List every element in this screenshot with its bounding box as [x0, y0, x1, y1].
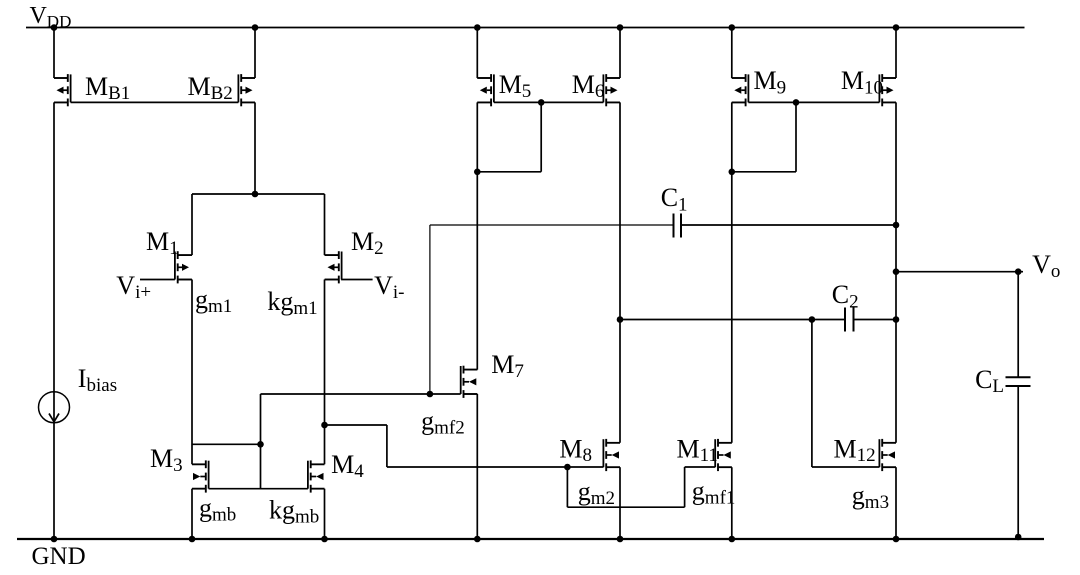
svg-text:M: M [499, 70, 522, 99]
transistor MB1 [54, 74, 71, 106]
svg-text:g: g [578, 477, 591, 506]
label M10 [841, 66, 883, 99]
svg-text:kg: kg [269, 496, 295, 525]
wire M8 source to GND [606, 467, 620, 539]
node CL-GND junction [1015, 534, 1022, 541]
svg-text:DD: DD [47, 12, 72, 31]
label kgm1 [267, 287, 317, 319]
label M1 [146, 227, 179, 259]
node MB1-GND junction [51, 536, 58, 543]
Ibias arrowhead [49, 414, 59, 422]
wire tail rail [192, 193, 325, 195]
svg-text:i-: i- [393, 282, 405, 303]
wire M12 gate branch [812, 320, 880, 468]
label C2 [832, 280, 859, 313]
transistor M5 [477, 74, 494, 106]
svg-text:C: C [975, 365, 992, 394]
power rail VDD [26, 27, 1025, 29]
wire M2 drain down [325, 280, 339, 465]
wire M9-M10 gate line [748, 101, 879, 103]
wire C2 right lead [854, 319, 897, 321]
svg-text:3: 3 [173, 455, 183, 476]
svg-text:10: 10 [864, 78, 883, 99]
wire M7 gate line [261, 393, 461, 395]
svg-text:g: g [195, 285, 208, 314]
label Vo [1032, 250, 1060, 282]
wire M5 diode tie [477, 102, 541, 171]
node M7 gate junction [427, 391, 434, 398]
label M7 [491, 350, 524, 382]
label MB2 [188, 72, 233, 104]
node C2-M12gate junction [809, 316, 816, 323]
svg-text:7: 7 [514, 361, 524, 382]
wire M3 source to GND [192, 489, 206, 539]
svg-text:M: M [188, 72, 211, 101]
svg-text:2: 2 [374, 238, 384, 259]
label M5 [499, 70, 532, 102]
svg-text:M: M [85, 72, 108, 101]
capacitor C1 [674, 214, 682, 238]
node M5-M6 gate junction [538, 99, 545, 106]
wire C1 gate drop [429, 225, 431, 394]
transistor MB2 [238, 74, 255, 106]
transistor M8 [603, 439, 620, 471]
GND label [32, 543, 86, 570]
svg-text:V: V [30, 3, 48, 29]
svg-text:C: C [832, 280, 849, 309]
wire VDD to M5 source [477, 28, 491, 79]
svg-text:mb: mb [212, 505, 236, 526]
svg-text:6: 6 [595, 81, 605, 102]
node VDD-MB1 junction [51, 24, 58, 31]
svg-text:m1: m1 [293, 298, 317, 319]
label gm3 [852, 481, 889, 513]
label M2 [351, 227, 384, 259]
transistor M10 [879, 74, 896, 106]
current source Ibias [39, 392, 70, 423]
wire M12 drain stub [882, 442, 896, 444]
wire M9 drain down to M11 [732, 102, 746, 442]
svg-text:V: V [1032, 250, 1051, 279]
svg-text:12: 12 [857, 445, 876, 466]
svg-text:M: M [351, 227, 374, 256]
wire M1 source [178, 194, 192, 255]
wire M3-M4 gate line [209, 488, 308, 490]
wire M8 drain stub [606, 442, 620, 444]
svg-text:B2: B2 [211, 83, 233, 104]
wire VDD to MB1 source [54, 28, 68, 79]
wire M1 drain down [178, 280, 192, 465]
svg-text:kg: kg [267, 287, 293, 316]
transistor M9 [732, 74, 749, 106]
label gmb [199, 494, 236, 526]
svg-text:m2: m2 [591, 488, 615, 509]
label M9 [754, 66, 787, 99]
svg-text:B1: B1 [108, 83, 130, 104]
node M11-GND junction [729, 536, 736, 543]
svg-text:11: 11 [700, 445, 718, 466]
wire M11 drain stub [718, 442, 732, 444]
node Vo-M10 junction [893, 268, 900, 275]
svg-text:V: V [374, 271, 393, 300]
svg-text:mf2: mf2 [434, 418, 465, 439]
transistor M3 [192, 460, 209, 492]
svg-text:9: 9 [777, 78, 787, 99]
svg-text:g: g [421, 407, 434, 436]
node M5 drain tie junction [474, 169, 481, 176]
label M6 [572, 70, 605, 102]
svg-text:M: M [146, 227, 169, 256]
svg-text:o: o [1051, 261, 1061, 282]
wire C1 left lead [430, 224, 674, 226]
label Vi- [374, 271, 404, 303]
svg-text:4: 4 [354, 461, 364, 482]
label gmf1 [692, 477, 736, 509]
svg-text:bias: bias [87, 375, 118, 396]
node C1-output junction [893, 222, 900, 229]
wire M6 source to VDD [606, 28, 620, 79]
wire MB1-MB2 gate line [71, 101, 239, 103]
transistor M6 [603, 74, 620, 106]
wire M9 diode tie [732, 102, 796, 171]
label gm1 [195, 285, 232, 317]
svg-text:I: I [78, 364, 87, 393]
label CL [975, 365, 1004, 397]
wire C1 right lead [681, 224, 896, 226]
svg-text:m1: m1 [208, 296, 232, 317]
svg-text:M: M [491, 350, 514, 379]
node VDD-M10 junction [893, 24, 900, 31]
wire M4 source to GND [311, 489, 325, 539]
wire Vi+ to M1 gate [140, 279, 175, 281]
wire M3 drain-gate tie [192, 443, 261, 445]
node VDD-MB2 junction [252, 24, 259, 31]
node M9-M10 gate junction [793, 99, 800, 106]
node M9 drain tie junction [729, 169, 736, 176]
transistor M12 [879, 439, 896, 471]
node M4-GND junction [321, 536, 328, 543]
wire M10 drain down to M12 [882, 102, 896, 442]
wire M7 source to GND [464, 394, 478, 539]
wire M5-M6 gate line [494, 101, 604, 103]
wire M7 drain stub [464, 369, 478, 371]
wire MB1 drain down to GND [54, 102, 68, 539]
ground rail GND [17, 538, 1044, 540]
label C1 [661, 183, 688, 216]
wire MB2 source to VDD [241, 28, 255, 79]
wire M4 drain stub [311, 463, 325, 465]
node VDD-M5 junction [474, 24, 481, 31]
label MB1 [85, 72, 130, 104]
capacitor C2 [845, 308, 854, 332]
svg-text:M: M [150, 444, 173, 473]
node Vo-CL junction [1015, 268, 1022, 275]
label M3 [150, 444, 183, 476]
wire M11 source to GND [718, 467, 732, 539]
VDD label [30, 3, 72, 31]
node mirror tie junction [257, 441, 264, 448]
svg-text:M: M [331, 450, 354, 479]
wire M10 source to VDD [882, 28, 896, 79]
node C2-M6 junction [617, 316, 624, 323]
svg-text:5: 5 [522, 81, 532, 102]
svg-text:V: V [116, 271, 135, 300]
capacitor CL [1006, 377, 1031, 386]
label M11 [677, 435, 718, 467]
node C2-output junction [893, 316, 900, 323]
wire Vo to CL [1017, 272, 1019, 378]
wire C2 left lead [620, 319, 845, 321]
wire M5 drain down to M7 [477, 102, 491, 369]
wire mirror tie vertical [260, 394, 262, 489]
svg-text:m3: m3 [865, 492, 889, 513]
node M12-GND junction [893, 536, 900, 543]
label Vi+ [116, 271, 151, 303]
svg-text:M: M [841, 66, 864, 95]
wire M6 drain down to M8 [606, 102, 620, 442]
svg-text:2: 2 [849, 292, 859, 313]
transistor M11 [715, 439, 732, 471]
svg-text:g: g [692, 477, 705, 506]
svg-text:M: M [677, 435, 700, 464]
transistor M2 [325, 251, 342, 283]
svg-text:L: L [992, 376, 1004, 397]
label Ibias [78, 364, 117, 396]
svg-text:M: M [559, 435, 582, 464]
label gm2 [578, 477, 615, 509]
label M4 [331, 450, 364, 482]
wire M3 drain stub [192, 463, 206, 465]
label M8 [559, 435, 592, 467]
label kgmb [269, 496, 319, 528]
svg-text:M: M [572, 70, 595, 99]
wire M2 drain to gm2 stage [325, 425, 604, 467]
wire M2 source [325, 194, 339, 255]
wire Vo line [896, 271, 1023, 273]
label M12 [834, 435, 876, 467]
node VDD-M6 junction [617, 24, 624, 31]
node M3-GND junction [189, 536, 196, 543]
svg-text:mf1: mf1 [705, 488, 736, 509]
node M8 gate branch junction [564, 464, 571, 471]
svg-text:1: 1 [678, 195, 688, 216]
label gmf2 [421, 407, 465, 439]
node M8-GND junction [617, 536, 624, 543]
transistor M1 [175, 251, 192, 283]
svg-text:g: g [199, 494, 212, 523]
transistor M7 [461, 366, 478, 398]
svg-text:i+: i+ [135, 282, 151, 303]
wire VDD to M9 source [732, 28, 746, 79]
transistor M4 [308, 460, 325, 492]
node tail junction [252, 191, 259, 198]
svg-text:8: 8 [583, 445, 593, 466]
svg-text:M: M [754, 66, 777, 95]
svg-text:C: C [661, 183, 678, 212]
wire MB2 drain to tail node [241, 102, 255, 194]
wire M2 gate to Vi- [341, 279, 373, 281]
wire M12 source to GND [882, 467, 896, 539]
wire CL to GND [1017, 386, 1019, 539]
node M7-GND junction [474, 536, 481, 543]
svg-text:mb: mb [295, 507, 319, 528]
svg-text:1: 1 [169, 238, 179, 259]
svg-text:g: g [852, 481, 865, 510]
svg-text:M: M [834, 435, 857, 464]
wire branch to M11 gate [567, 467, 715, 507]
node M2 drain junction [321, 422, 328, 429]
svg-text:GND: GND [32, 543, 86, 570]
node VDD-M9 junction [729, 24, 736, 31]
